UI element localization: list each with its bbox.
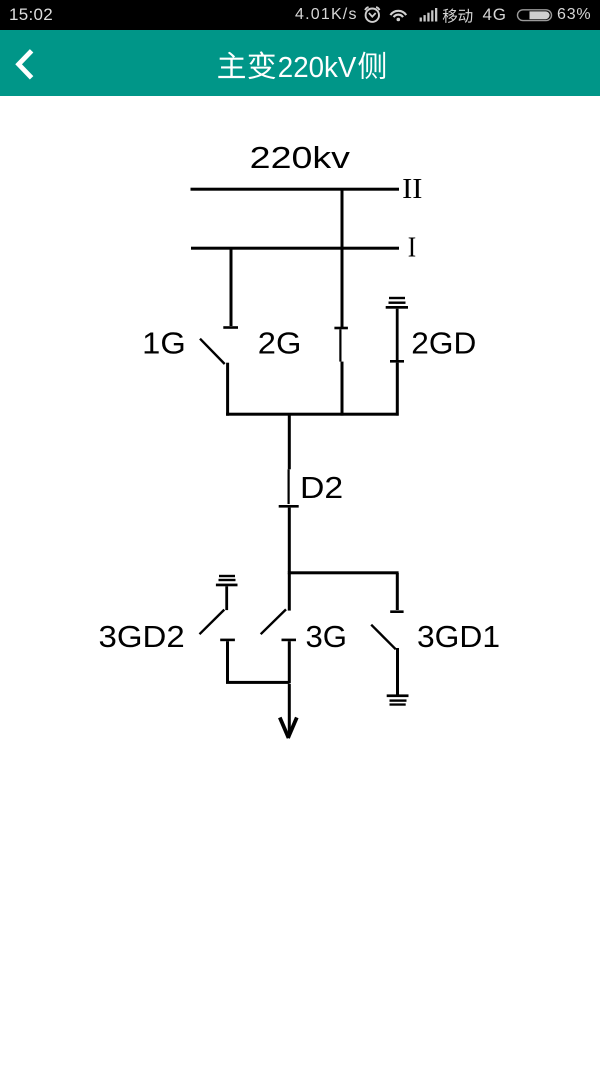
tick contact xyxy=(390,360,404,363)
stem xyxy=(225,586,228,610)
blade (closed) xyxy=(339,329,341,361)
status bar xyxy=(0,0,600,30)
bus II xyxy=(191,188,400,191)
wire down to bar xyxy=(396,363,399,416)
wire down to ground xyxy=(396,648,399,695)
disconnector 3G xyxy=(261,573,296,683)
tick contact xyxy=(223,326,238,329)
junction bar middle xyxy=(288,571,399,574)
disconnector 2G xyxy=(334,188,348,416)
tick contact xyxy=(282,639,297,642)
svg-text:3GD2: 3GD2 xyxy=(99,619,185,654)
tick contact xyxy=(279,505,299,508)
battery icon xyxy=(518,10,552,21)
earthing switch 3GD2 xyxy=(200,586,235,683)
blade (closed) xyxy=(288,469,290,504)
back chevron xyxy=(19,51,32,78)
移动 carrier text xyxy=(443,8,473,22)
tick contact xyxy=(220,639,235,642)
title 主变220kV侧 xyxy=(218,51,385,84)
junction bar bottom xyxy=(226,681,290,684)
bus I xyxy=(191,247,399,250)
earthing switch 2GD xyxy=(390,309,404,416)
svg-text:1G: 1G xyxy=(142,326,186,361)
svg-text:D2: D2 xyxy=(300,470,343,505)
alarm clock icon xyxy=(365,7,379,22)
ground symbol 2GD xyxy=(386,297,408,309)
wire from bar xyxy=(396,573,399,610)
wire down to bar xyxy=(341,362,344,416)
svg-text:220kV: 220kV xyxy=(278,52,357,84)
junction bar top xyxy=(226,413,399,416)
svg-text:2G: 2G xyxy=(258,326,302,361)
wire down to bar xyxy=(226,641,229,683)
svg-text:3GD1: 3GD1 xyxy=(417,619,500,654)
breaker D2 xyxy=(279,415,299,573)
wire from bus II through bus I xyxy=(341,188,344,327)
wire down xyxy=(288,508,291,573)
wire from bus I xyxy=(230,249,233,326)
tick contact xyxy=(390,610,403,613)
svg-text:2GD: 2GD xyxy=(411,326,476,361)
ground symbol 3GD2 xyxy=(216,575,238,587)
arrow head xyxy=(280,718,297,739)
blade (open) xyxy=(200,339,225,364)
header bar xyxy=(0,30,600,96)
svg-text:I: I xyxy=(408,232,416,264)
blade (open) xyxy=(261,609,286,634)
blade (open) xyxy=(371,625,396,650)
disconnector 1G xyxy=(200,249,238,416)
svg-text:220kv: 220kv xyxy=(250,140,351,175)
wifi icon xyxy=(390,11,406,21)
stem xyxy=(396,309,399,360)
wire from bar xyxy=(288,573,291,611)
ground symbol 3GD1 xyxy=(387,694,409,705)
earthing switch 3GD1 xyxy=(371,573,403,695)
svg-text:II: II xyxy=(402,173,422,205)
wire to arrow xyxy=(288,684,291,735)
signal bars icon xyxy=(420,8,438,22)
wire from bar xyxy=(288,415,291,469)
wire down xyxy=(288,641,291,683)
wire down to bar xyxy=(226,363,229,416)
blade (open) xyxy=(200,610,225,635)
tick contact xyxy=(334,327,348,330)
svg-text:3G: 3G xyxy=(306,619,348,654)
